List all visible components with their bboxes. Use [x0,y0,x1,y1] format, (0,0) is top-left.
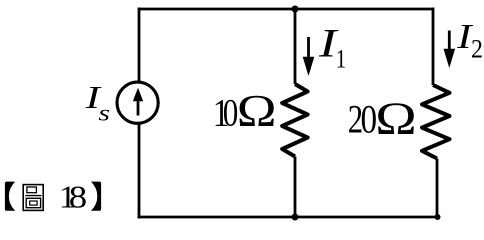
wire middle vertical lower stub [294,157,297,218]
svg-text:s: s [98,100,110,126]
node bottom junction [292,214,299,221]
label 10ohm [213,86,277,136]
label 20ohm [348,93,417,145]
wire bottom horizontal [138,216,440,219]
current arrow I1 [303,37,315,76]
svg-text:Ω: Ω [375,93,416,145]
resistor R 10ohm zigzag [282,84,307,157]
wire left vertical upper [138,8,141,83]
svg-text:8: 8 [69,179,87,214]
svg-text:1: 1 [336,45,346,74]
wire top horizontal [139,8,433,11]
caption text 18 [59,179,87,214]
node top junction [292,6,299,13]
wire middle vertical upper stub [294,9,297,84]
svg-text:2: 2 [471,36,483,64]
caption bracket left [5,182,15,211]
wire left vertical lower [138,124,141,218]
node bottom right corner [435,214,441,220]
current arrow I2 [444,31,456,69]
current source Is [117,82,158,123]
wire right vertical upper stub [432,8,435,86]
wire right vertical lower stub [436,159,439,218]
caption glyph tu (figure) [23,185,43,211]
resistor R 20ohm zigzag [422,85,450,159]
label I1 [318,21,346,74]
label I2 [456,18,483,64]
svg-text:Ω: Ω [237,86,277,136]
label Is [84,80,110,126]
caption bracket right [91,182,101,211]
